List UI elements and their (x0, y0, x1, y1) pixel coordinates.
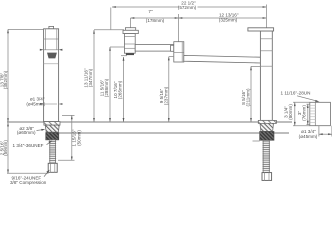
dimension 13 11/16 (347mm) (94, 30, 124, 122)
svg-text:1 3/4"-36UNEF: 1 3/4"-36UNEF (13, 143, 44, 148)
shank detail block (310, 102, 331, 125)
compression nut (left view) (48, 163, 57, 172)
faucet body (left view) (44, 29, 59, 122)
ext line joint center (178, 14, 180, 42)
svg-text:(76mm): (76mm) (302, 105, 307, 121)
counter top line (7, 121, 292, 123)
svg-text:(ø45mm): (ø45mm) (26, 101, 45, 106)
svg-text:(347mm): (347mm) (88, 68, 93, 87)
locknut (right view) (260, 132, 274, 141)
dimension 11 5/16 (288mm) (110, 47, 125, 122)
body ring line 1 (44, 38, 59, 40)
stub line left of locknut (253, 140, 260, 142)
svg-text:(50mm): (50mm) (76, 130, 81, 146)
dimension 3 (76mm) (307, 104, 310, 124)
spout head body (124, 34, 135, 54)
dimension 10 7/16 (265mm) (121, 56, 127, 122)
aerator dark band (126, 53, 134, 55)
escutcheon section (left view) (45, 125, 59, 132)
svg-text:(265mm): (265mm) (118, 80, 123, 99)
svg-text:(572mm): (572mm) (178, 5, 197, 10)
dimension 13 7/8 (352mm) vertical left (8, 29, 44, 122)
upper arm (135, 45, 174, 52)
svg-text:(ø45mm): (ø45mm) (299, 134, 318, 139)
riser column (260, 31, 272, 120)
handle bar (248, 28, 274, 31)
dimension 8 5/16 (211mm) left of riser (251, 66, 260, 121)
svg-text:(352mm): (352mm) (3, 70, 8, 89)
svg-text:7": 7" (148, 9, 153, 14)
spout head top (125, 28, 135, 31)
arm collar at joint (171, 45, 174, 51)
joint block (174, 42, 184, 62)
riser ring lines (260, 38, 272, 40)
body ring line 3 (44, 63, 59, 65)
base flange (left view) (44, 122, 60, 126)
body ring line 2 (44, 49, 59, 51)
svg-text:(178mm): (178mm) (146, 18, 165, 23)
head ring lines (124, 36, 135, 38)
width tick arrow left (40, 49, 44, 51)
counter bottom line (46, 132, 289, 134)
dimension 12 13/16 (325mm) (179, 17, 267, 19)
lower arm (184, 55, 261, 63)
dimension 22 1/2 (572mm) (112, 6, 179, 8)
ext line left (22 1/2) (110, 8, 112, 30)
compression nut (right view) (262, 173, 272, 181)
handle knob on top (left view) (49, 26, 54, 28)
svg-text:(ø60mm): (ø60mm) (17, 130, 36, 135)
dimension 7 (178mm) (131, 17, 179, 19)
svg-text:(325mm): (325mm) (219, 18, 238, 23)
body diameter arrows (o1 3/4) (40, 103, 44, 105)
threaded shank (left view) (50, 140, 56, 163)
locknut (left view) (46, 133, 59, 140)
ext line right (to handle) (265, 5, 267, 28)
width tick arrow right (59, 49, 63, 51)
dimension 2 5/16 (59mm) vertical lower-left (7, 123, 49, 174)
svg-text:(211mm): (211mm) (246, 88, 251, 107)
svg-text:(237mm): (237mm) (163, 86, 168, 105)
spout outlet dark trapezoid (folded spout) (47, 53, 57, 59)
body inner sleeve lines (44, 29, 46, 50)
threaded shank (right view) (263, 140, 269, 172)
svg-text:(59mm): (59mm) (3, 140, 8, 156)
shank threads (left view) (49, 142, 56, 161)
dimension 1 15/16 (50mm) right of left shank (58, 115, 75, 160)
svg-text:1 11/16"-28UN: 1 11/16"-28UN (281, 90, 311, 95)
dimension 3 1/4 (80mm) (293, 102, 310, 125)
dimension 9 5/16 (237mm) under upper arm (169, 57, 174, 122)
escutcheon section (right view) (260, 123, 274, 131)
svg-text:3/8" Compression: 3/8" Compression (10, 180, 47, 185)
svg-text:(288mm): (288mm) (104, 78, 109, 97)
svg-text:(80mm): (80mm) (288, 104, 293, 120)
spout head cap ring (123, 30, 138, 33)
base flange (right view) (258, 120, 276, 123)
